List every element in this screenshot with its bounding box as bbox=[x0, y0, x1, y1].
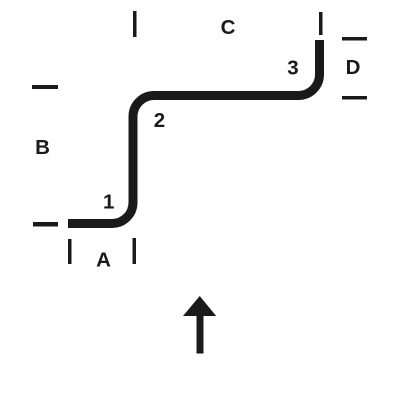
tick bottom-left bbox=[68, 239, 72, 264]
svg-text:3: 3 bbox=[287, 57, 298, 80]
course path bbox=[68, 40, 320, 224]
svg-text:2: 2 bbox=[154, 109, 165, 132]
svg-text:C: C bbox=[221, 16, 236, 39]
tick top-left bbox=[133, 11, 137, 37]
tick right-lower bbox=[342, 96, 367, 100]
svg-text:1: 1 bbox=[103, 191, 114, 214]
svg-text:B: B bbox=[35, 136, 50, 159]
svg-text:A: A bbox=[96, 249, 111, 272]
tick right-upper bbox=[342, 37, 367, 41]
tick left-lower bbox=[33, 222, 58, 227]
entry arrow bbox=[183, 296, 216, 354]
tick left-upper bbox=[32, 85, 58, 89]
tick bottom-right bbox=[133, 238, 137, 264]
svg-text:D: D bbox=[346, 56, 361, 79]
tick top-right bbox=[319, 12, 323, 35]
